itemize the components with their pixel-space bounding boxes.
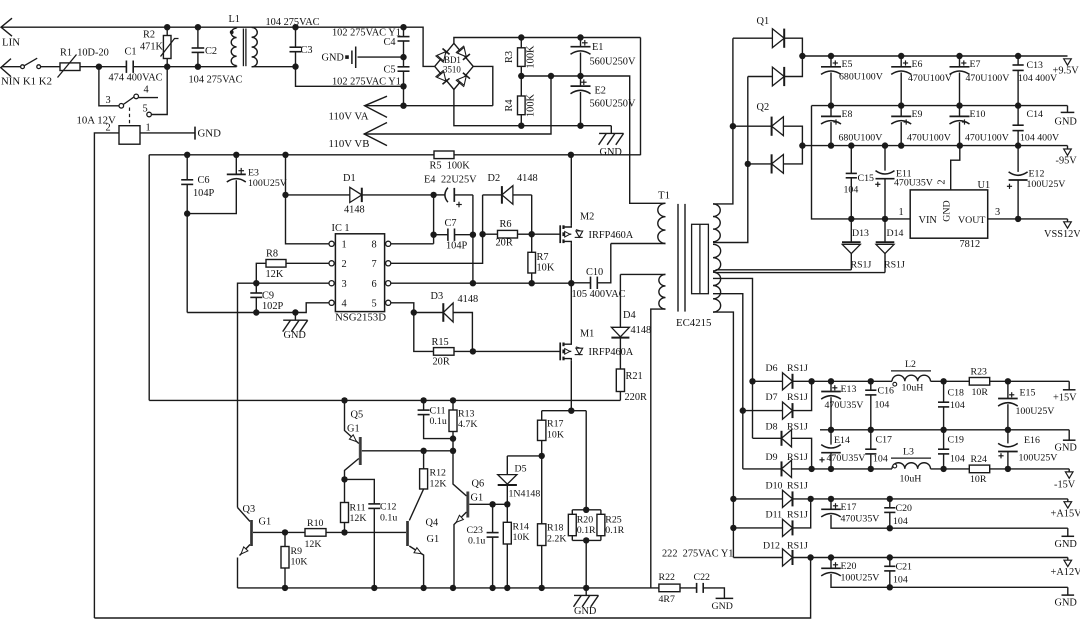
svg-text:R24: R24	[971, 454, 988, 465]
svg-text:D8: D8	[766, 422, 778, 433]
svg-text:D7: D7	[766, 392, 778, 403]
svg-text:D1: D1	[343, 173, 356, 184]
wire M1 source sense node	[542, 410, 587, 412]
svg-text:0.1u: 0.1u	[430, 416, 447, 427]
wire pin5 to D3 node	[391, 303, 414, 313]
svg-text:104: 104	[893, 575, 908, 586]
node VSS12V terminal	[1067, 219, 1069, 222]
node -95V terminal	[1067, 146, 1069, 149]
wire left VCC drop to LV rail	[148, 155, 150, 401]
wire to relay contact 3	[99, 67, 119, 106]
svg-text:470U100V: 470U100V	[965, 133, 1010, 144]
wire VA line to bridge loop	[365, 105, 493, 107]
capacitor E5 680U100V	[830, 56, 832, 67]
svg-text:M2: M2	[580, 212, 594, 223]
node NIN input arrow	[1, 59, 11, 77]
capacitor C22	[696, 583, 698, 593]
svg-text:GND: GND	[712, 601, 733, 612]
svg-text:C2: C2	[205, 46, 217, 57]
wire M1 drain	[570, 283, 572, 342]
svg-text:104P: 104P	[193, 188, 214, 199]
svg-text:C11: C11	[430, 406, 446, 417]
capacitor C12 0.1u	[345, 479, 375, 504]
svg-text:3: 3	[106, 95, 111, 106]
svg-text:GND: GND	[198, 128, 222, 140]
svg-text:D2: D2	[488, 173, 501, 184]
svg-text:L1: L1	[229, 14, 240, 25]
svg-text:105 400VAC: 105 400VAC	[572, 289, 626, 300]
svg-text:0.1R: 0.1R	[577, 525, 596, 536]
wire VCC rail y155	[149, 154, 434, 156]
svg-text:-15V: -15V	[1054, 480, 1076, 491]
svg-text:2: 2	[937, 179, 948, 184]
transistor M2 IRFP460A	[559, 225, 561, 243]
svg-text:10K: 10K	[291, 557, 309, 568]
wire L2 to R23	[931, 380, 970, 382]
capacitor E15 100U25V	[1007, 381, 1009, 398]
svg-text:C16: C16	[878, 386, 895, 397]
svg-text:VOUT: VOUT	[958, 215, 985, 226]
svg-text:RS1J: RS1J	[884, 260, 905, 271]
svg-text:C4: C4	[384, 37, 396, 48]
svg-text:22U25V: 22U25V	[441, 175, 477, 186]
capacitor E17 470U35V	[830, 499, 832, 509]
svg-text:10R: 10R	[972, 387, 989, 398]
capacitor E9 470U100V	[900, 106, 902, 117]
svg-text:RS1J: RS1J	[787, 452, 808, 463]
svg-text:D4: D4	[623, 310, 636, 321]
svg-text:E15: E15	[1020, 388, 1036, 399]
inductor L3 10uH	[891, 457, 931, 459]
svg-text:E20: E20	[841, 561, 857, 572]
svg-text:E16: E16	[1024, 435, 1040, 446]
wire M1 source down	[570, 360, 572, 410]
svg-text:104: 104	[950, 454, 965, 465]
svg-text:12K: 12K	[350, 513, 368, 524]
svg-text:1: 1	[899, 207, 904, 218]
svg-text:102P: 102P	[262, 301, 283, 312]
svg-text:C12: C12	[380, 502, 397, 513]
svg-text:C21: C21	[896, 562, 913, 573]
ground IC GND hatch	[294, 313, 296, 321]
capacitor E7 470U100V	[959, 56, 961, 67]
svg-text:C17: C17	[876, 435, 893, 446]
svg-text:R14: R14	[513, 522, 530, 533]
svg-text:4148: 4148	[631, 325, 652, 336]
svg-text:U1: U1	[978, 180, 991, 191]
svg-text:G1: G1	[471, 493, 484, 504]
svg-text:RS1J: RS1J	[787, 509, 808, 520]
wire bridge bottom to -bus	[454, 90, 611, 126]
wire +15V rail	[812, 380, 892, 382]
transformer T1 secondary winding B	[713, 244, 721, 271]
capacitor C1 474 400VAC	[125, 61, 127, 73]
svg-text:10K: 10K	[537, 263, 555, 274]
svg-text:102 275VAC Y1: 102 275VAC Y1	[332, 77, 401, 88]
wire secondary tap to D13	[716, 269, 852, 271]
transformer T1 core	[677, 204, 679, 312]
svg-text:10K: 10K	[547, 430, 565, 441]
svg-text:Q3: Q3	[243, 504, 256, 515]
wire A15V return to GND	[890, 527, 1068, 529]
wire Q3 base	[253, 531, 285, 533]
svg-text:EC4215: EC4215	[676, 317, 711, 329]
transformer T1 aux winding	[659, 274, 666, 309]
capacitor C18 104	[943, 381, 945, 402]
svg-text:-95V: -95V	[1056, 156, 1078, 167]
wire LV ground rail	[238, 587, 659, 589]
svg-text:GND: GND	[1055, 117, 1078, 128]
diode D11 RS1J	[733, 527, 782, 529]
capacitor C17 104	[870, 430, 872, 449]
svg-text:0.1u: 0.1u	[380, 513, 397, 524]
capacitor C14 104 400V	[1017, 106, 1019, 126]
wire N line to switch	[2, 66, 21, 68]
svg-text:D3: D3	[431, 291, 444, 302]
svg-text:IC 1: IC 1	[332, 223, 350, 234]
diode D1 4148	[286, 194, 350, 196]
svg-text:10uH: 10uH	[900, 474, 922, 485]
wire L1 right to C3 and bridge	[251, 26, 253, 28]
svg-text:8: 8	[372, 240, 377, 251]
wire LV rail y400	[149, 399, 620, 401]
capacitor E20 100U25V	[830, 558, 832, 569]
svg-text:10uH: 10uH	[902, 383, 924, 394]
wire A12V rail to bottom loop	[94, 558, 810, 619]
wire U1 pin2 to -95V rail	[951, 146, 960, 190]
svg-text:3: 3	[342, 279, 347, 290]
svg-text:4148: 4148	[517, 173, 538, 184]
capacitor C16 104	[870, 381, 872, 390]
svg-text:LIN: LIN	[2, 37, 20, 49]
svg-text:T1: T1	[658, 190, 670, 202]
resistor R11 12K	[344, 479, 346, 502]
wire K2 to R1	[41, 66, 60, 68]
svg-text:RS1J: RS1J	[787, 480, 808, 491]
svg-text:Q2: Q2	[757, 102, 770, 113]
svg-text:4148: 4148	[458, 294, 479, 305]
svg-text:6: 6	[372, 279, 377, 290]
transistor M1 IRFP460A	[559, 343, 561, 361]
svg-text:R1 10D-20: R1 10D-20	[60, 48, 109, 59]
svg-text:R18: R18	[547, 523, 564, 534]
transformer T1 shield	[692, 224, 709, 293]
node GND mid terminal	[1068, 430, 1070, 440]
svg-text:C22: C22	[694, 572, 711, 583]
svg-text:4: 4	[342, 299, 347, 310]
switch K1 K2	[21, 65, 25, 69]
wire 0V rail	[812, 105, 1068, 107]
svg-text:222 275VAC Y1: 222 275VAC Y1	[662, 549, 733, 560]
inductor L2 10uH	[891, 370, 931, 372]
wire secondary tap to Q2	[713, 77, 748, 243]
resistor R13 4.7K	[452, 400, 454, 410]
diode D13 RS1J	[850, 219, 852, 242]
diode D12 RS1J	[733, 557, 782, 559]
node +A12V terminal	[1067, 558, 1069, 561]
svg-text:VIN: VIN	[919, 215, 938, 226]
wire pin3 line to feedback drop	[238, 283, 329, 507]
relay contact 5	[147, 112, 152, 117]
svg-text:C10: C10	[586, 267, 603, 278]
node +A15V terminal	[1067, 499, 1069, 502]
svg-text:RS1J: RS1J	[787, 422, 808, 433]
ground main GND hatch	[585, 588, 587, 596]
svg-text:R11: R11	[350, 503, 366, 514]
wire +A12V rail	[811, 557, 1068, 559]
svg-text:D9: D9	[766, 452, 778, 463]
transformer T1 secondary winding A	[713, 204, 720, 242]
svg-text:E12: E12	[1029, 169, 1045, 180]
resistor R4 100K	[520, 76, 522, 96]
capacitor E11 470U35V	[884, 146, 886, 171]
svg-text:D10: D10	[766, 480, 783, 491]
svg-text:R15: R15	[432, 337, 449, 348]
resistor R24 10R	[969, 465, 989, 473]
svg-text:10R: 10R	[970, 474, 987, 485]
svg-text:IRFP460A: IRFP460A	[589, 347, 634, 358]
diode D8 RS1J	[753, 437, 782, 439]
diode D6 RS1J	[753, 380, 783, 382]
svg-text:C6: C6	[198, 175, 210, 186]
svg-text:L2: L2	[905, 359, 916, 370]
svg-text:470U35V: 470U35V	[894, 178, 934, 189]
svg-text:R4: R4	[504, 99, 515, 111]
resistors R20 R25 0.1R sense	[585, 411, 587, 510]
diode D7 RS1J	[743, 410, 783, 412]
svg-text:GND: GND	[284, 330, 307, 341]
svg-text:R22: R22	[659, 572, 676, 583]
svg-text:Q5: Q5	[351, 410, 364, 421]
svg-text:680U100V: 680U100V	[839, 133, 884, 144]
wire U1 VOUT to VSS12V	[988, 218, 1068, 220]
wire D2 right riser to R6 node	[531, 195, 533, 234]
bridge rectifier BD1 3510	[435, 43, 474, 89]
svg-text:Q4: Q4	[426, 518, 439, 529]
wire Q4 base	[345, 531, 407, 533]
wire -15V rail	[812, 468, 892, 470]
capacitor C11 0.1u	[423, 400, 425, 410]
node LIN input arrow	[1, 18, 12, 36]
svg-text:GND: GND	[1055, 539, 1078, 550]
svg-text:104 400V: 104 400V	[1018, 73, 1058, 84]
svg-text:E2: E2	[595, 86, 606, 97]
resistor R12 12K	[423, 451, 425, 469]
diode D5 1N4148	[506, 456, 508, 475]
wire E4 right riser	[472, 195, 474, 283]
svg-text:G1: G1	[259, 517, 272, 528]
ground Y-cap midpoint GND	[358, 56, 404, 58]
resistor R8 12K	[286, 262, 329, 264]
svg-text:104P: 104P	[446, 241, 467, 252]
svg-text:110V VB: 110V VB	[329, 138, 370, 150]
svg-text:RS1J: RS1J	[787, 392, 808, 403]
svg-text:100U25V: 100U25V	[248, 178, 288, 189]
wire VCC to pin1 and D1	[286, 155, 329, 244]
svg-text:C13: C13	[1027, 60, 1044, 71]
svg-text:1N4148: 1N4148	[509, 489, 541, 500]
resistor R23 10R	[969, 378, 989, 386]
ground relay GND bar	[194, 127, 196, 140]
svg-text:M1: M1	[580, 329, 594, 340]
wire Q6 base	[469, 503, 507, 505]
svg-text:C7: C7	[445, 218, 457, 229]
svg-text:560U250V: 560U250V	[590, 99, 636, 110]
svg-text:GND: GND	[1055, 598, 1078, 609]
svg-text:104: 104	[873, 454, 888, 465]
svg-text:R21: R21	[626, 371, 643, 382]
wire gate line to M1	[473, 350, 560, 352]
svg-text:680U100V: 680U100V	[839, 72, 884, 83]
IC U1 IC1 NSG2153D	[335, 234, 384, 312]
resistor R22 4R7	[659, 584, 680, 592]
node 110V VA arrow	[365, 96, 387, 117]
svg-text:R12: R12	[430, 468, 447, 479]
node +15V terminal	[1068, 381, 1070, 390]
svg-text:470U35V: 470U35V	[827, 453, 867, 464]
wire L line top	[2, 27, 435, 66]
svg-text:100K: 100K	[526, 45, 537, 68]
svg-text:560U250V: 560U250V	[590, 57, 636, 68]
wire +9.5V rail	[802, 55, 1067, 57]
wire aux top to D4	[620, 273, 665, 275]
wire L3 to R24	[931, 468, 970, 470]
svg-text:R3: R3	[504, 51, 515, 63]
svg-text:7812: 7812	[960, 239, 981, 250]
svg-text:+A15V: +A15V	[1051, 509, 1080, 520]
wire R3 R4 midpoint to cap divider midpoint	[521, 76, 665, 203]
wire relay pin1 to GND	[140, 132, 195, 134]
svg-text:1: 1	[342, 240, 347, 251]
svg-text:D5: D5	[515, 464, 527, 475]
svg-text:100U25V: 100U25V	[1027, 179, 1067, 190]
wire 0V rail drop to VIN line	[812, 106, 911, 219]
svg-text:474 400VAC: 474 400VAC	[109, 73, 163, 84]
svg-text:C1: C1	[125, 47, 137, 58]
resistor R9 10K	[284, 532, 286, 546]
svg-text:471K: 471K	[140, 42, 163, 53]
resistor R7 10K	[531, 234, 533, 252]
svg-text:12K: 12K	[430, 479, 448, 490]
wire secondary tap to D14	[716, 272, 886, 274]
svg-text:470U100V: 470U100V	[966, 73, 1011, 84]
wire secondary bottom to D10 D11 D12	[713, 312, 733, 557]
svg-text:E1: E1	[592, 42, 603, 53]
node -15V terminal	[1068, 469, 1070, 472]
svg-text:E14: E14	[834, 435, 850, 446]
svg-text:R7: R7	[537, 252, 549, 263]
resistor R21 220R	[616, 369, 624, 392]
wire VB line to E1 E2 midpoint	[364, 76, 551, 134]
wire D5 to R17 node	[507, 455, 541, 457]
wire relay pin2 to left bus	[94, 133, 119, 618]
capacitor E1 560U250V	[580, 38, 582, 47]
svg-text:GND: GND	[574, 606, 597, 617]
ground primary GND hatch	[599, 132, 623, 134]
capacitor C19 104	[943, 430, 945, 449]
svg-text:G1: G1	[427, 534, 440, 545]
wire R6 to M2 gate	[532, 233, 561, 235]
svg-text:VSS12V: VSS12V	[1044, 229, 1080, 240]
svg-text:R13: R13	[458, 409, 475, 420]
capacitor C23 0.1u	[492, 504, 494, 532]
wire A12V return to GND	[890, 586, 1068, 588]
svg-text:R5 100K: R5 100K	[430, 161, 471, 172]
node GND terminal top	[1067, 106, 1069, 113]
svg-text:R25: R25	[605, 515, 622, 526]
svg-text:4R7: 4R7	[659, 594, 676, 605]
diode D10 RS1J	[733, 498, 782, 500]
svg-text:C14: C14	[1027, 109, 1044, 120]
wire M2 drain	[570, 155, 572, 226]
svg-text:L3: L3	[903, 447, 914, 458]
svg-text:IRFP460A: IRFP460A	[589, 230, 634, 241]
svg-text:4: 4	[144, 85, 149, 96]
capacitor C6 104P	[186, 155, 188, 180]
wire aux bottom to ground rail	[651, 309, 666, 588]
svg-text:R23: R23	[971, 367, 988, 378]
wire pin6 line to half-bridge midpoint	[391, 282, 571, 284]
ground C22 GND bar	[716, 597, 734, 599]
svg-text:GND: GND	[600, 147, 623, 158]
wire C10 to primary bottom	[611, 243, 666, 245]
svg-text:C23: C23	[467, 525, 484, 536]
svg-text:110V VA: 110V VA	[329, 111, 369, 123]
svg-text:R20: R20	[577, 515, 594, 526]
svg-text:C9: C9	[262, 291, 274, 302]
capacitor E2 560U250V	[580, 76, 582, 86]
svg-text:GND: GND	[322, 53, 345, 64]
svg-text:2: 2	[342, 259, 347, 270]
svg-text:D6: D6	[766, 363, 778, 374]
capacitor E12 100U25V	[1017, 146, 1019, 172]
svg-text:RS1J: RS1J	[851, 260, 872, 271]
svg-text:Q1: Q1	[757, 16, 770, 27]
svg-text:12K: 12K	[266, 269, 284, 280]
relay contact 3	[119, 104, 124, 109]
wire C3 bottom loop to C5 bottom	[296, 67, 404, 87]
svg-text:GND: GND	[942, 200, 953, 221]
svg-text:D11: D11	[766, 509, 783, 520]
svg-text:E10: E10	[970, 109, 986, 120]
node 110V VB arrow	[364, 123, 387, 146]
resistor R15 20R	[414, 313, 434, 352]
svg-text:Q6: Q6	[472, 479, 485, 490]
wire -bus to GND hatch	[610, 126, 612, 134]
diode D14 RS1J	[884, 219, 886, 242]
resistor R3 100K	[520, 38, 522, 48]
varistor R1 10D-20	[60, 63, 80, 71]
svg-text:100K: 100K	[526, 93, 537, 116]
svg-text:104: 104	[875, 400, 890, 411]
capacitor E10 470U100V	[959, 106, 961, 117]
svg-text:4.7K: 4.7K	[458, 419, 478, 430]
resistor R14 10K	[506, 504, 508, 522]
svg-text:E9: E9	[912, 109, 923, 120]
svg-text:470U35V: 470U35V	[825, 400, 865, 411]
svg-text:100U25V: 100U25V	[1016, 406, 1056, 417]
node +9.5V terminal	[1064, 59, 1072, 65]
resistor R10 12K	[285, 531, 305, 533]
svg-text:12K: 12K	[305, 539, 323, 550]
capacitor E14 470U35V	[830, 430, 832, 445]
IC U1 7812 regulator	[910, 190, 988, 238]
svg-text:RS1J: RS1J	[787, 541, 808, 552]
capacitor C21 104	[889, 558, 891, 567]
wire C5 to VA line	[403, 86, 405, 105]
svg-text:E3: E3	[248, 168, 259, 179]
svg-text:R8: R8	[266, 249, 278, 260]
